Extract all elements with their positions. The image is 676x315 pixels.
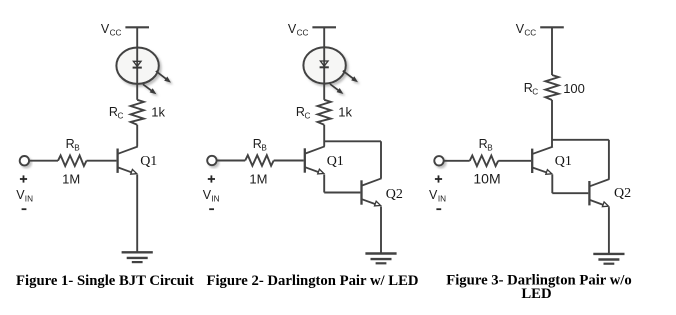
svg-text:V: V [516, 22, 525, 36]
svg-text:C: C [305, 111, 311, 120]
wire node to Q2 collector [380, 141, 382, 178]
label + (circuit 1) [20, 175, 27, 182]
LED lamp D2 (circle with diode) [303, 47, 345, 83]
label RC (circuit 1) [109, 105, 124, 120]
svg-text:Q1: Q1 [327, 154, 344, 169]
wire to Q2 base [552, 192, 588, 194]
svg-text:IN: IN [25, 194, 33, 203]
svg-text:C: C [118, 111, 124, 120]
wire terminal to RB [29, 160, 58, 162]
label Q2 (circuit 3) [614, 186, 631, 201]
input terminal (VIN circuit 1) [20, 156, 29, 165]
transistor Q2 (circuit 2) (NPN) [362, 178, 382, 206]
svg-text:LED: LED [521, 286, 551, 302]
wire VCC to RC [551, 27, 553, 75]
label RB (circuit 2) [253, 137, 268, 152]
svg-text:CC: CC [297, 29, 309, 38]
power VCC rail (circuit 2) [312, 26, 336, 28]
svg-text:IN: IN [211, 194, 219, 203]
label RB (circuit 1) [66, 137, 81, 152]
caption Figure 3 line 2 [521, 286, 551, 302]
wire RC to collector node [323, 125, 325, 146]
wire RB to Q1 base [274, 160, 304, 162]
label RC (circuit 2) [296, 105, 311, 120]
svg-text:Q2: Q2 [614, 186, 631, 201]
svg-text:CC: CC [110, 29, 122, 38]
wire RB to Q1 base [498, 160, 531, 162]
label + (circuit 3) [435, 175, 442, 182]
label value 1k circuit 2 [338, 104, 352, 119]
caption Figure 2 [206, 273, 418, 289]
wire Q1 emitter to ground [136, 175, 138, 253]
transistor Q1 (circuit 3) (NPN) [532, 147, 553, 175]
svg-text:1M: 1M [62, 171, 80, 186]
power VCC rail (circuit 3) [540, 26, 564, 28]
svg-text:Figure 2- Darlington Pair w/ L: Figure 2- Darlington Pair w/ LED [206, 273, 418, 289]
label - (circuit 3) [436, 208, 441, 210]
svg-text:10M: 10M [473, 170, 500, 186]
label VIN (circuit 1) [16, 188, 33, 203]
ground (circuit 2) [365, 254, 396, 264]
svg-text:IN: IN [438, 194, 446, 203]
transistor Q1 (circuit 1) (NPN) [118, 147, 138, 175]
wire RC to Q1 collector [136, 125, 138, 147]
transistor Q1 (circuit 2) (NPN) [305, 146, 325, 174]
svg-text:CC: CC [524, 29, 536, 38]
svg-text:V: V [429, 188, 438, 202]
label VIN (circuit 2) [203, 188, 220, 203]
ground (circuit 1) [122, 252, 153, 262]
svg-text:Q1: Q1 [140, 154, 157, 169]
svg-text:B: B [261, 143, 267, 152]
wire LED to RC [136, 84, 138, 100]
input terminal (VIN circuit 2) [207, 156, 216, 165]
resistor RC 100 (vertical zigzag) [545, 75, 558, 100]
label Q1 (circuit 2) [327, 154, 344, 169]
wire Q1 emitter down [323, 174, 325, 192]
svg-text:1M: 1M [249, 171, 267, 186]
ground (circuit 3) [593, 254, 624, 264]
label RC (circuit 3) [524, 81, 539, 96]
wire RC to collector node [551, 100, 553, 147]
transistor Q2 (circuit 3) (NPN) [589, 179, 609, 207]
svg-text:B: B [487, 143, 493, 152]
svg-text:V: V [288, 22, 297, 36]
resistor RB 1M circuit 2 (horizontal zigzag) [245, 155, 274, 166]
label value 1M [62, 171, 80, 186]
label Q1 (circuit 1) [140, 154, 157, 169]
power VCC rail (circuit 1) [125, 26, 149, 28]
node collector rail (circuit 3) [552, 139, 609, 141]
resistor RC 1k circuit 2 (vertical zigzag) [318, 100, 331, 125]
wire VCC to LED [136, 27, 138, 47]
svg-text:1k: 1k [151, 104, 165, 119]
wire Q1 emitter down [551, 175, 553, 194]
caption Figure 1 [16, 273, 194, 289]
wire Q2 emitter to ground [380, 206, 382, 253]
label value 1M circuit 2 [249, 171, 267, 186]
node collector rail (circuit 2) [324, 140, 381, 142]
label - (circuit 2) [209, 208, 214, 210]
wire Q2 emitter to ground [608, 207, 610, 254]
label VCC (circuit 3) [516, 22, 537, 38]
resistor RB 1M (horizontal zigzag) [58, 155, 87, 166]
wire VCC to LED [323, 27, 325, 47]
label - (circuit 1) [22, 208, 27, 210]
svg-text:Q1: Q1 [555, 154, 572, 169]
label VIN (circuit 3) [429, 188, 446, 203]
svg-text:1k: 1k [338, 104, 352, 119]
label value 10M [473, 170, 500, 186]
LED lamp D1 (circle with diode) [116, 47, 158, 83]
label value 100 [563, 81, 585, 96]
svg-text:B: B [74, 143, 80, 152]
label VCC (circuit 1) [101, 22, 122, 38]
svg-text:Q2: Q2 [386, 187, 403, 202]
LED light-emission arrows (D2) [330, 71, 358, 94]
label VCC (circuit 2) [288, 22, 309, 38]
label value 1k [151, 104, 165, 119]
label + (circuit 2) [208, 175, 215, 182]
input terminal (VIN circuit 3) [434, 156, 443, 165]
wire terminal to RB [444, 160, 470, 162]
label RB (circuit 3) [479, 137, 494, 152]
resistor RC 1k (vertical zigzag) [131, 100, 144, 125]
resistor RB 10M (horizontal zigzag) [470, 156, 499, 167]
wire terminal to RB [217, 160, 246, 162]
wire RB to Q1 base [87, 160, 117, 162]
label Q2 (circuit 2) [386, 187, 403, 202]
label Q1 (circuit 3) [555, 154, 572, 169]
svg-text:V: V [101, 22, 110, 36]
wire node to Q2 collector [608, 140, 610, 179]
LED light-emission arrows (D1) [143, 71, 171, 94]
svg-text:Figure 1- Single BJT Circuit: Figure 1- Single BJT Circuit [16, 273, 194, 289]
wire LED to RC [323, 84, 325, 100]
svg-text:100: 100 [563, 81, 585, 96]
caption Figure 3 line 1 [446, 273, 632, 289]
svg-text:C: C [532, 87, 538, 96]
wire to Q2 base [324, 192, 360, 194]
